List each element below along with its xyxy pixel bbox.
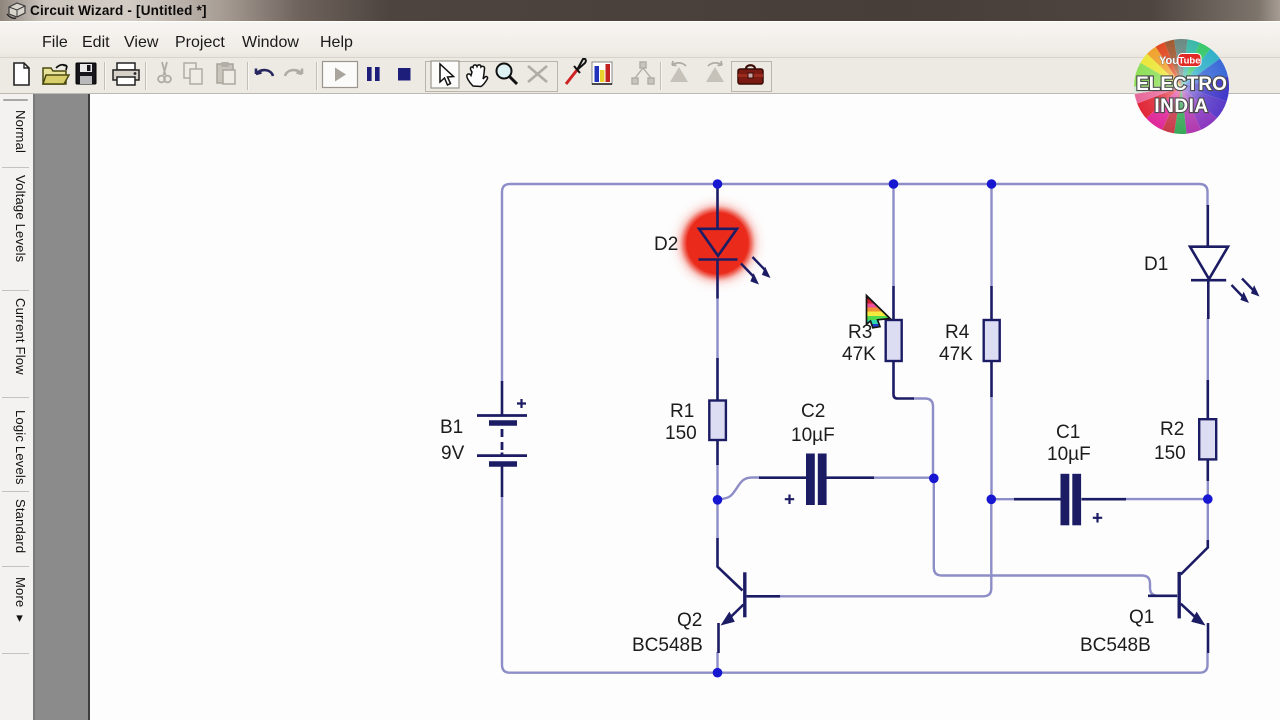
- net nodes (disabled): [632, 62, 654, 84]
- node top rail / R4: [987, 179, 997, 189]
- node top rail / R3: [889, 179, 899, 189]
- mouse cursor (rainbow): [867, 296, 891, 328]
- toolbox: [738, 65, 763, 84]
- wire Q2 emitter to bottom rail: [716, 652, 718, 673]
- cut (disabled): [158, 62, 171, 82]
- copy (disabled): [184, 63, 202, 84]
- menu bar: [0, 21, 1280, 58]
- transistor Q2 emitter: [726, 605, 744, 623]
- open: [43, 65, 69, 84]
- LED D2 light arrows: [741, 257, 765, 276]
- svg-text:ELECTRO: ELECTRO: [1136, 74, 1227, 95]
- battery B1 cell dashes: [501, 429, 504, 456]
- chart: [592, 62, 612, 84]
- wire R3 jog light part: [913, 399, 933, 479]
- resistor R2 body: [1199, 419, 1216, 459]
- wire R4 top: [990, 184, 992, 286]
- transistor Q1 base bar: [1177, 572, 1180, 619]
- LED D1 cathode bar: [1191, 279, 1226, 282]
- rotate right (disabled): [706, 61, 724, 82]
- node R1 / C2 / Q2 collector: [713, 495, 723, 505]
- LED D2 cathode lead: [716, 260, 719, 299]
- node C1 right / R2 / Q1 collector: [1203, 494, 1213, 504]
- probe: [566, 59, 586, 84]
- save: [76, 63, 96, 84]
- transistor Q1 collector lead: [1181, 540, 1208, 575]
- capacitor C1 plus sign: [1093, 513, 1102, 523]
- youtube badge: [1159, 54, 1201, 68]
- capacitor C2 plates: [806, 454, 827, 506]
- resistor R3 body: [886, 320, 902, 361]
- play (dim, pressed white button): [323, 62, 358, 88]
- wire C1 right to R2 node: [1125, 498, 1208, 500]
- capacitor C2 leads: [759, 476, 874, 479]
- battery B1 plate long +: [477, 414, 527, 417]
- transistor Q2 base lead: [747, 595, 780, 598]
- resistor R2 leads: [1207, 380, 1210, 481]
- title bar: [0, 0, 1280, 21]
- print: [113, 63, 139, 85]
- new: [14, 63, 29, 85]
- wire R3 top: [892, 184, 894, 286]
- wire C2 node down and right to Q1 base: [934, 478, 1160, 596]
- pause: [367, 67, 380, 81]
- battery B1 plus sign: [517, 399, 526, 408]
- wire R1 bottom through node to Q2 collector: [716, 464, 718, 540]
- undo: [256, 69, 273, 77]
- battery B1 plate short thick: [489, 420, 517, 426]
- capacitor C1 plates: [1061, 474, 1082, 526]
- LED D2 cathode bar: [699, 258, 738, 261]
- node R4 / C1 / Q2 base: [987, 495, 997, 505]
- LED D2 triangle symbol: [699, 229, 737, 256]
- resistor R1 leads: [716, 358, 719, 465]
- transistor Q1 emitter arrowhead: [1191, 612, 1205, 626]
- wire top rail with left drop and right drop: [502, 184, 1208, 382]
- wire bottom rail from battery to Q1 emitter: [502, 496, 1208, 673]
- toolbar: [0, 57, 1280, 94]
- wire C2 right to node: [873, 477, 934, 479]
- wire node to C1 left: [991, 498, 1015, 500]
- battery B1 bottom lead: [501, 467, 504, 498]
- transistor Q2 collector lead: [718, 538, 743, 591]
- select arrow button (pressed): [431, 61, 459, 88]
- logo: [1134, 39, 1229, 134]
- resistor R3 leads: [894, 286, 915, 399]
- LED D2 anode lead: [716, 188, 719, 230]
- LED D1 light arrows: [1232, 279, 1254, 298]
- capacitor C2 plus sign: [785, 495, 794, 505]
- transistor Q2 emitter arrowhead: [721, 612, 735, 626]
- LED D2 glow (lit): [667, 192, 769, 294]
- svg-text:Tube: Tube: [1179, 56, 1201, 67]
- battery B1 plate short thick 2: [489, 461, 517, 467]
- node top rail / D2: [713, 179, 723, 189]
- hand: [467, 65, 488, 87]
- resistor R1 body: [709, 401, 726, 441]
- transistor Q2 base bar: [743, 572, 746, 617]
- redo (disabled): [285, 69, 302, 77]
- wire R4 bottom to node: [990, 396, 992, 499]
- wire node to C2 left (s-bend): [720, 478, 760, 500]
- rotate left (disabled): [670, 61, 688, 82]
- resistor R4 body: [984, 320, 1000, 361]
- capacitor C1 leads: [1014, 498, 1126, 501]
- LED D1 cathode lead: [1207, 280, 1210, 319]
- node bottom rail / Q2 emitter: [713, 668, 723, 678]
- paste (disabled): [217, 62, 235, 84]
- transistor Q1 base lead: [1148, 594, 1177, 597]
- resistor R4 leads: [990, 286, 993, 397]
- svg-text:You: You: [1159, 55, 1179, 67]
- wire D1 cathode to R2: [1207, 318, 1209, 382]
- LED D1 triangle symbol: [1190, 247, 1228, 279]
- transistor Q1 emitter: [1181, 604, 1201, 622]
- wire D2 cathode to R1: [716, 298, 718, 360]
- stop: [398, 68, 411, 81]
- wire R2 node down to Q1 collector: [1207, 480, 1209, 542]
- svg-text:INDIA: INDIA: [1154, 96, 1208, 117]
- battery B1 top lead: [501, 381, 504, 416]
- magnifier: [497, 64, 518, 85]
- wire Q2 base to R4 node: [779, 499, 991, 596]
- LED D1 anode lead: [1207, 205, 1210, 247]
- node C2 right / R3: [929, 474, 939, 484]
- delete X (disabled): [528, 66, 547, 82]
- battery B1 plate long 2: [477, 454, 527, 457]
